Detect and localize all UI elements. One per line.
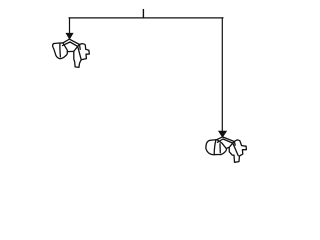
wire flap fold diagonal <box>233 143 238 156</box>
clip flap outline <box>74 44 90 68</box>
wire band bottom edge <box>70 42 78 46</box>
wire ear fold crease <box>214 140 216 154</box>
wire horizontal bracket line <box>69 17 223 19</box>
wire left face top edge <box>63 39 70 43</box>
wire left leader <box>69 18 71 34</box>
clip part 2 (bottom-right) <box>206 137 247 162</box>
arrowhead left <box>66 33 73 39</box>
wire band top edge <box>70 39 80 44</box>
clip ear outline <box>53 43 68 59</box>
arrowhead right <box>219 131 227 137</box>
wire tab inner crease <box>79 45 82 50</box>
clip flap outline <box>229 140 246 162</box>
wire left face top edge <box>217 137 223 140</box>
wire left face bottom edge <box>217 139 223 142</box>
wire connector edge <box>227 146 230 149</box>
wire right leader <box>221 18 223 131</box>
wire ear fold crease <box>59 43 62 56</box>
wire ear second crease <box>219 144 221 153</box>
clip part 1 (top-left) <box>53 39 90 67</box>
wire flap fold diagonal <box>78 46 82 59</box>
wire left face bottom edge <box>63 42 71 46</box>
wire tab inner crease <box>233 142 236 146</box>
node 1 tick label <box>142 10 144 18</box>
clip ear outline <box>206 140 227 155</box>
wire connector edge <box>67 50 74 52</box>
wire band top edge <box>223 137 235 142</box>
wire band bottom edge <box>223 139 233 143</box>
